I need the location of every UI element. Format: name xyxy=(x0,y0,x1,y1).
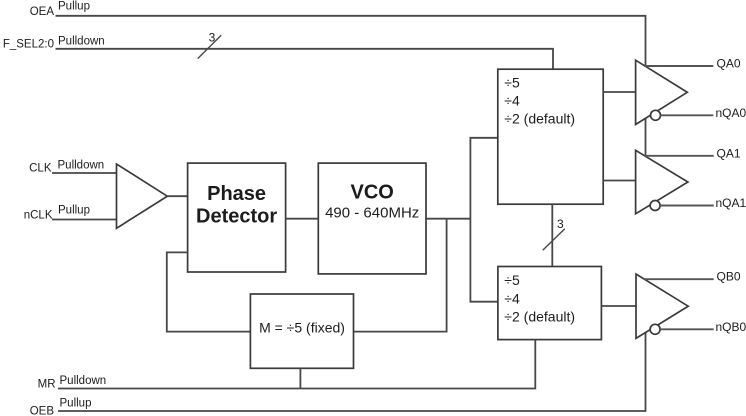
wire divider A to buffer A1 xyxy=(603,91,635,93)
svg-text:OEB: OEB xyxy=(30,406,55,416)
VCO U3 xyxy=(318,163,426,274)
svg-text:Detector: Detector xyxy=(196,206,277,228)
svg-text:nQA1: nQA1 xyxy=(716,196,746,210)
svg-text:Pullup: Pullup xyxy=(58,205,90,217)
svg-text:F_SEL2:0: F_SEL2:0 xyxy=(3,39,54,51)
svg-text:Phase: Phase xyxy=(207,183,266,205)
wire OEB net (horizontal bottom rail + vertical enable rise to buffer B1) xyxy=(58,330,646,411)
svg-text:÷2 (default): ÷2 (default) xyxy=(504,309,575,325)
wire phase detector to VCO xyxy=(286,218,319,220)
wire divider M to MR net xyxy=(299,368,301,388)
wire nQA1 xyxy=(660,205,714,207)
output buffer A1 xyxy=(636,60,688,124)
bus-width slash (divider select) xyxy=(543,229,565,251)
phase detector U2 xyxy=(188,163,286,272)
divider B U5 xyxy=(498,267,602,340)
svg-text:MR: MR xyxy=(38,379,56,391)
svg-text:QB0: QB0 xyxy=(717,270,741,284)
svg-text:M = ÷5 (fixed): M = ÷5 (fixed) xyxy=(259,320,345,336)
wire QA1 xyxy=(645,155,714,157)
wire nQB0 xyxy=(660,328,714,330)
inversion bubble (nQB0) xyxy=(650,324,660,334)
output buffer A2 xyxy=(636,150,688,214)
svg-text:Pulldown: Pulldown xyxy=(58,160,105,172)
wire U1 output to phase detector xyxy=(167,195,187,197)
wire feedback VCO to divider M xyxy=(354,219,447,332)
inversion bubble (nQA1) xyxy=(650,201,660,211)
input buffer U1 xyxy=(117,164,168,228)
wire nQA0 xyxy=(661,114,714,116)
wire CLK xyxy=(52,172,117,174)
svg-text:÷4: ÷4 xyxy=(504,93,520,109)
svg-text:÷5: ÷5 xyxy=(504,272,520,288)
svg-text:Pulldown: Pulldown xyxy=(60,375,107,387)
svg-text:Pullup: Pullup xyxy=(58,1,90,13)
inversion bubble (nQA0) xyxy=(651,110,661,120)
svg-text:Pulldown: Pulldown xyxy=(58,36,105,48)
svg-text:nQB0: nQB0 xyxy=(716,320,746,334)
svg-text:OEA: OEA xyxy=(30,6,55,18)
svg-text:3: 3 xyxy=(209,31,216,45)
wire divider A to buffer A2 xyxy=(603,180,635,182)
wire OEA net (horizontal top rail + vertical enable drop to buffers A1/A2) xyxy=(56,16,646,170)
wire MR net (horizontal + rise into divider B) xyxy=(58,340,535,389)
svg-text:÷4: ÷4 xyxy=(504,290,520,306)
divider A U4 xyxy=(498,69,603,204)
wire F_SEL2:0 bus (horizontal + drop into divider A) xyxy=(56,49,554,69)
wire divider B to buffer B1 xyxy=(601,305,636,307)
svg-text:QA1: QA1 xyxy=(717,146,741,160)
wire divider A to divider B (3-bit select) xyxy=(551,204,553,266)
svg-text:QA0: QA0 xyxy=(717,57,741,71)
svg-text:÷5: ÷5 xyxy=(504,74,520,90)
wire nCLK xyxy=(52,219,117,221)
feedback divider M xyxy=(250,294,353,368)
svg-text:÷2 (default): ÷2 (default) xyxy=(504,111,575,127)
svg-text:490 - 640MHz: 490 - 640MHz xyxy=(325,205,419,222)
output buffer B1 xyxy=(636,274,688,338)
wire QA0 xyxy=(644,65,713,67)
wire divider input bus (vertical with branches into divider A and divider B) xyxy=(470,138,498,302)
svg-text:Pullup: Pullup xyxy=(60,398,92,410)
svg-text:nQA0: nQA0 xyxy=(716,106,746,120)
bus-width slash (F_SEL2:0) xyxy=(198,35,222,58)
wire QB0 xyxy=(644,278,713,280)
svg-text:VCO: VCO xyxy=(351,182,394,204)
wire VCO output to divider bus xyxy=(426,218,470,220)
svg-text:3: 3 xyxy=(557,217,564,231)
svg-text:CLK: CLK xyxy=(29,163,52,175)
svg-text:nCLK: nCLK xyxy=(24,210,53,222)
wire feedback divider M to phase detector xyxy=(167,252,251,331)
